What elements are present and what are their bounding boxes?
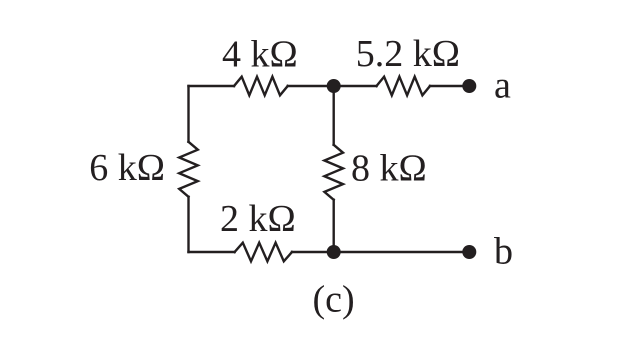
svg-text:b: b — [494, 231, 513, 273]
resistor R 6k zigzag — [179, 142, 198, 197]
wire top middle — [288, 85, 377, 87]
svg-text:5.2 kΩ: 5.2 kΩ — [356, 33, 460, 75]
resistor R 5.2k zigzag — [377, 77, 431, 96]
wire left vertical bottom — [187, 197, 189, 252]
svg-text:(c): (c) — [313, 278, 355, 320]
resistor R 2k zigzag — [235, 243, 292, 262]
resistor R 4k zigzag — [234, 77, 288, 96]
terminal a dot — [462, 79, 476, 93]
resistor R 8k zigzag — [324, 145, 343, 200]
svg-text:6 kΩ: 6 kΩ — [89, 147, 165, 189]
svg-text:8 kΩ: 8 kΩ — [351, 148, 427, 190]
wire top-left horizontal — [189, 85, 235, 87]
svg-text:2 kΩ: 2 kΩ — [220, 198, 296, 240]
wire middle vertical top — [333, 86, 335, 145]
wire bottom-left horizontal — [189, 251, 235, 253]
svg-text:4 kΩ: 4 kΩ — [222, 34, 298, 76]
terminal b dot — [462, 245, 476, 259]
wire middle vertical bottom — [333, 200, 335, 252]
wire left vertical top — [187, 86, 189, 142]
wire to terminal a — [430, 85, 469, 87]
wire bottom to terminal b — [292, 251, 469, 253]
svg-text:a: a — [494, 65, 511, 107]
node top junction dot — [327, 79, 341, 93]
node bottom junction dot — [327, 245, 341, 259]
